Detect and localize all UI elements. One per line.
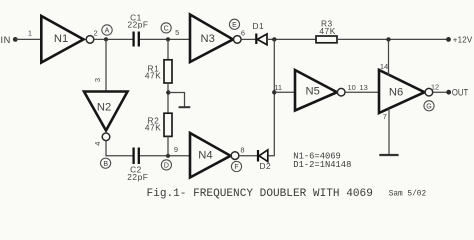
node A xyxy=(102,25,112,35)
wire C2 to N4 input xyxy=(140,155,190,157)
svg-text:+12V: +12V xyxy=(453,35,473,44)
svg-text:12: 12 xyxy=(431,82,439,91)
svg-text:6: 6 xyxy=(241,28,245,37)
wire R2 to C2 junction xyxy=(167,136,169,155)
svg-text:N3: N3 xyxy=(201,33,215,45)
svg-text:1: 1 xyxy=(28,28,32,37)
svg-text:N4: N4 xyxy=(198,149,212,161)
svg-text:C: C xyxy=(164,26,169,33)
wire node A down to N2 input xyxy=(105,39,107,91)
svg-text:D2: D2 xyxy=(260,161,272,171)
wire D1 to R3 xyxy=(267,38,316,40)
wire node C down to R1 xyxy=(167,39,169,60)
inverter N4 xyxy=(190,133,239,178)
svg-text:47K: 47K xyxy=(145,71,161,81)
wire summing node down to D2 xyxy=(268,39,274,155)
parts note xyxy=(293,151,351,170)
svg-text:IN: IN xyxy=(1,35,12,45)
capacitor C1 xyxy=(127,12,148,46)
wire N6 to OUT xyxy=(433,91,449,93)
inverter N1 xyxy=(41,16,93,63)
svg-text:47K: 47K xyxy=(319,26,335,36)
svg-text:3: 3 xyxy=(93,78,102,82)
ground (divider midpoint) xyxy=(179,106,191,108)
svg-text:9: 9 xyxy=(174,145,178,154)
svg-text:N2: N2 xyxy=(97,102,111,114)
wire N5 to N6 xyxy=(345,91,379,93)
wire R3 to +12V terminal xyxy=(337,38,449,40)
svg-text:4: 4 xyxy=(93,142,102,146)
diode D2 xyxy=(258,150,271,171)
IN terminal xyxy=(1,35,18,45)
wire C1 to N3 input xyxy=(140,38,190,40)
node D xyxy=(161,160,171,170)
svg-text:11: 11 xyxy=(274,83,282,92)
capacitor C2 xyxy=(127,148,148,183)
node F xyxy=(231,161,241,171)
svg-text:N5: N5 xyxy=(306,86,320,98)
inverter N5 xyxy=(295,70,345,111)
inverter N6 xyxy=(379,70,433,113)
wire R1 to R2 xyxy=(167,83,169,113)
svg-text:N1: N1 xyxy=(54,33,68,45)
svg-text:7: 7 xyxy=(383,112,387,121)
svg-text:D1-2=1N4148: D1-2=1N4148 xyxy=(293,160,351,170)
ground N6 pin 7 xyxy=(379,154,398,156)
svg-text:22pF: 22pF xyxy=(127,172,148,182)
wire N4 to D2 xyxy=(239,155,258,157)
node C xyxy=(161,23,171,33)
junction at node A xyxy=(104,37,108,41)
junction at node C xyxy=(166,37,170,41)
svg-text:F: F xyxy=(234,164,238,171)
junction N5 input xyxy=(272,90,276,94)
diode D1 xyxy=(253,21,268,45)
svg-text:D1: D1 xyxy=(253,21,265,31)
node E xyxy=(229,19,239,29)
junction +12V rail / N6 pin 14 xyxy=(386,37,390,41)
wire N1 output to C1 xyxy=(94,38,133,40)
svg-text:A: A xyxy=(105,28,110,35)
svg-text:47K: 47K xyxy=(145,122,161,132)
wire N3 to D1 xyxy=(241,38,256,40)
node B xyxy=(101,158,111,168)
inverter N3 xyxy=(190,15,241,63)
svg-text:10: 10 xyxy=(348,83,356,92)
svg-text:Fig.1- FREQUENCY DOUBLER WITH: Fig.1- FREQUENCY DOUBLER WITH 4069 xyxy=(147,188,373,200)
resistor R1 xyxy=(145,60,172,83)
node G xyxy=(424,101,434,111)
wire junction to ground xyxy=(168,93,184,107)
+12V terminal xyxy=(446,35,473,44)
svg-text:Sam 5/02: Sam 5/02 xyxy=(389,191,427,199)
svg-text:D: D xyxy=(164,163,169,170)
svg-text:22pF: 22pF xyxy=(127,20,148,30)
svg-text:N6: N6 xyxy=(389,87,403,99)
svg-text:13: 13 xyxy=(359,83,367,92)
svg-text:14: 14 xyxy=(380,62,388,71)
resistor R3 xyxy=(316,19,337,43)
pin 7 wire xyxy=(388,109,390,156)
svg-text:B: B xyxy=(103,161,108,168)
junction summing node xyxy=(272,37,276,41)
svg-text:5: 5 xyxy=(175,28,179,37)
wire to N5 input xyxy=(274,91,295,93)
junction R1/R2/ground tap xyxy=(166,90,170,94)
inverter N2 xyxy=(84,92,128,141)
pin 14 wire xyxy=(388,39,390,75)
junction R2/C2/N4 xyxy=(166,154,170,158)
svg-text:8: 8 xyxy=(240,146,244,155)
resistor R2 xyxy=(145,113,172,136)
svg-text:G: G xyxy=(426,103,431,110)
svg-text:OUT: OUT xyxy=(452,87,469,97)
svg-text:2: 2 xyxy=(94,29,98,38)
wire IN to N1 xyxy=(15,38,41,40)
svg-text:E: E xyxy=(232,22,237,29)
wire N2 output down and right to C2 xyxy=(106,141,133,156)
OUT terminal xyxy=(446,87,468,97)
